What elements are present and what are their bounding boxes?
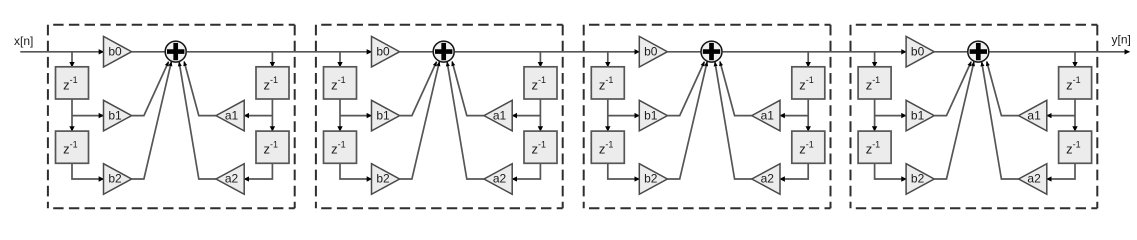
wire: tap to gain a1 (section 3): [780, 115, 808, 117]
wire: gain a1 to adder (section 2): [452, 61, 484, 115]
gain b0 (section 3): [639, 36, 667, 67]
svg-text:a1: a1: [761, 108, 775, 122]
wire: gain b1 to adder (section 3): [667, 62, 704, 116]
gain a2 (section 3): [752, 164, 780, 195]
gain a1 (section 1): [216, 100, 244, 131]
wire: gain a2 to adder (section 1): [179, 62, 216, 179]
gain b0 (section 2): [372, 36, 400, 67]
delay z^-1 block (input chain, second) section 2: [324, 131, 357, 163]
gain a1 (section 2): [484, 100, 512, 131]
wire: second delay down and right to gain b2 (section 2): [340, 163, 372, 179]
adder (summing junction) section 4: [968, 41, 989, 62]
gain b2 (section 4): [906, 164, 934, 195]
svg-text:b1: b1: [376, 108, 390, 122]
svg-text:a1: a1: [1027, 108, 1041, 122]
wire: tap to gain b1 (section 4): [875, 115, 907, 117]
delay z^-1 block (feedback chain, second) section 1: [256, 131, 289, 163]
gain b2 (section 2): [372, 164, 400, 195]
wire: input tap down into first delay (section 1): [71, 52, 73, 67]
section 4 dashed boundary box: [851, 25, 1098, 209]
wire: feedback delay 2 down and left to gain a2 (section 2): [512, 163, 540, 179]
wire: gain b1 to adder (section 2): [400, 62, 437, 116]
section 1 dashed boundary box: [48, 25, 295, 209]
wire: adder output tap down into feedback delay (section 2): [539, 52, 541, 67]
svg-text:b0: b0: [376, 45, 390, 59]
svg-text:b1: b1: [644, 108, 658, 122]
svg-text:x[n]: x[n]: [14, 34, 33, 48]
wire: gain b1 to adder (section 1): [132, 62, 169, 116]
wire: tap to gain b1 (section 1): [72, 115, 104, 117]
wire: gain b1 to adder (section 4): [934, 62, 971, 116]
gain b0 (section 1): [104, 36, 132, 67]
wire: section 4 input to gain b0: [723, 51, 907, 53]
wire: gain a1 to adder (section 3): [720, 61, 752, 115]
wire: feedback delay 2 down and left to gain a2 (section 1): [244, 163, 272, 179]
wire: first delay to second delay with tap (section 2): [339, 99, 341, 131]
wire: feedback delay 1 to delay 2 with tap (section 3): [807, 99, 809, 131]
wire: gain a1 to adder (section 4): [987, 61, 1019, 115]
delay z^-1 block (feedback chain, second) section 2: [524, 131, 557, 163]
wire: adder output tap down into feedback delay (section 1): [271, 52, 273, 67]
svg-text:a1: a1: [225, 108, 239, 122]
adder (summing junction) section 1: [165, 41, 186, 62]
svg-text:b0: b0: [108, 45, 122, 59]
delay z^-1 block (input chain, first) section 2: [324, 67, 357, 99]
wire: tap to gain b1 (section 2): [340, 115, 372, 117]
delay z^-1 block (input chain, second) section 1: [56, 131, 89, 163]
delay z^-1 block (input chain, second) section 3: [591, 131, 624, 163]
wire: second delay down and right to gain b2 (section 1): [72, 163, 104, 179]
svg-text:b2: b2: [911, 172, 925, 186]
gain b1 (section 1): [104, 100, 132, 131]
adder (summing junction) section 2: [433, 41, 454, 62]
delay z^-1 block (feedback chain, first) section 1: [256, 67, 289, 99]
svg-text:b1: b1: [911, 108, 925, 122]
svg-text:b0: b0: [644, 45, 658, 59]
adder (summing junction) section 3: [701, 41, 722, 62]
wire: second delay down and right to gain b2 (section 4): [875, 163, 907, 179]
wire: gain b0 to adder (section 4): [934, 51, 968, 53]
wire: tap to gain b1 (section 3): [608, 115, 640, 117]
svg-text:a1: a1: [493, 108, 507, 122]
wire: section 2 input to gain b0: [187, 51, 372, 53]
wire: gain b0 to adder (section 1): [132, 51, 166, 53]
delay z^-1 block (feedback chain, first) section 4: [1059, 67, 1092, 99]
wire: first delay to second delay with tap (section 3): [607, 99, 609, 131]
gain a1 (section 3): [752, 100, 780, 131]
delay z^-1 block (feedback chain, second) section 3: [792, 131, 825, 163]
svg-text:a2: a2: [493, 172, 507, 186]
svg-text:b0: b0: [911, 45, 925, 59]
delay z^-1 block (feedback chain, first) section 2: [524, 67, 557, 99]
wire: tap to gain a1 (section 4): [1047, 115, 1075, 117]
wire: adder output tap down into feedback delay (section 4): [1074, 52, 1076, 67]
wire: gain a2 to adder (section 2): [447, 62, 484, 179]
wire: gain b2 to adder (section 2): [400, 62, 440, 179]
wire: gain a2 to adder (section 4): [982, 62, 1019, 179]
wire: feedback delay 1 to delay 2 with tap (section 2): [539, 99, 541, 131]
gain b1 (section 4): [906, 100, 934, 131]
wire: tap to gain a1 (section 2): [512, 115, 540, 117]
gain a2 (section 4): [1019, 164, 1047, 195]
delay z^-1 block (feedback chain, second) section 4: [1059, 131, 1092, 163]
gain a2 (section 2): [484, 164, 512, 195]
wire: second delay down and right to gain b2 (section 3): [608, 163, 640, 179]
gain b1 (section 2): [372, 100, 400, 131]
wire: first delay to second delay with tap (section 1): [71, 99, 73, 131]
delay z^-1 block (input chain, second) section 4: [858, 131, 891, 163]
wire: feedback delay 2 down and left to gain a2 (section 4): [1047, 163, 1075, 179]
delay z^-1 block (feedback chain, first) section 3: [792, 67, 825, 99]
wire: section 3 input to gain b0: [455, 51, 640, 53]
section 3 dashed boundary box: [584, 25, 831, 209]
gain a2 (section 1): [216, 164, 244, 195]
wire: section 1 input to gain b0: [20, 51, 103, 53]
gain b1 (section 3): [639, 100, 667, 131]
delay z^-1 block (input chain, first) section 4: [858, 67, 891, 99]
wire: feedback delay 1 to delay 2 with tap (section 4): [1074, 99, 1076, 131]
gain b2 (section 1): [104, 164, 132, 195]
wire: gain b2 to adder (section 4): [934, 62, 974, 179]
wire: feedback delay 1 to delay 2 with tap (section 1): [271, 99, 273, 131]
gain b2 (section 3): [639, 164, 667, 195]
wire: gain b2 to adder (section 1): [132, 62, 172, 179]
svg-text:a2: a2: [761, 172, 775, 186]
wire: feedback delay 2 down and left to gain a2 (section 3): [780, 163, 808, 179]
wire: gain b2 to adder (section 3): [667, 62, 707, 179]
delay z^-1 block (input chain, first) section 1: [56, 67, 89, 99]
wire: gain b0 to adder (section 2): [400, 51, 434, 53]
svg-text:b2: b2: [376, 172, 390, 186]
wire: input tap down into first delay (section 3): [607, 52, 609, 67]
wire: gain b0 to adder (section 3): [667, 51, 701, 53]
gain a1 (section 4): [1019, 100, 1047, 131]
svg-text:a2: a2: [225, 172, 239, 186]
wire: input tap down into first delay (section 2): [339, 52, 341, 67]
wire: first delay to second delay with tap (section 4): [874, 99, 876, 131]
svg-text:y[n]: y[n]: [1112, 33, 1131, 47]
wire: gain a1 to adder (section 1): [184, 61, 216, 115]
svg-text:a2: a2: [1027, 172, 1041, 186]
gain b0 (section 4): [906, 36, 934, 67]
wire: adder output tap down into feedback delay (section 3): [807, 52, 809, 67]
svg-text:b2: b2: [644, 172, 658, 186]
delay z^-1 block (input chain, first) section 3: [591, 67, 624, 99]
wire: tap to gain a1 (section 1): [244, 115, 272, 117]
wire: gain a2 to adder (section 3): [715, 62, 752, 179]
svg-text:b1: b1: [108, 108, 122, 122]
wire: cascade output y[n]: [989, 51, 1129, 53]
wire: input tap down into first delay (section 4): [874, 52, 876, 67]
section 2 dashed boundary box: [316, 25, 563, 209]
svg-text:b2: b2: [108, 172, 122, 186]
